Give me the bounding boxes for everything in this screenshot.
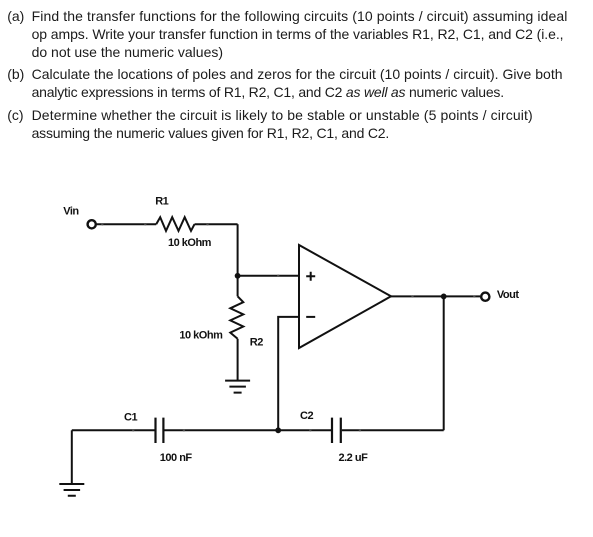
pin mark C1 pin 2 <box>183 429 185 431</box>
svg-text:10 kOhm: 10 kOhm <box>179 329 223 341</box>
pin mark C2 pin 2 <box>359 429 361 431</box>
junction node A <box>235 273 241 279</box>
pin mark R1 pin 1 <box>144 223 146 225</box>
wire ground riser to C1 <box>72 429 155 431</box>
pin mark Vin wire <box>101 223 103 225</box>
junction node Vout <box>441 294 447 300</box>
resistor R2 <box>230 296 243 339</box>
wire C2 to Vout branch <box>342 429 444 431</box>
svg-text:R1: R1 <box>155 196 168 208</box>
resistor R1 <box>156 217 194 231</box>
op-amp U1 <box>299 245 391 348</box>
svg-text:Vin: Vin <box>63 205 79 217</box>
terminal Vout <box>481 293 489 301</box>
pin mark Vout wire <box>473 295 475 297</box>
capacitor C2 <box>332 418 341 443</box>
svg-text:R2: R2 <box>250 337 263 349</box>
svg-text:2.2 uF: 2.2 uF <box>339 452 369 464</box>
wire R2 to ground <box>237 339 239 380</box>
wire left ground riser <box>71 430 73 484</box>
svg-text:Vout: Vout <box>497 289 519 301</box>
terminal Vin <box>88 220 96 228</box>
wire op-amp output <box>391 295 480 297</box>
wire node A to R2 <box>237 276 239 297</box>
pin mark C2 pin 1 <box>309 429 311 431</box>
svg-text:C1: C1 <box>124 412 137 424</box>
wire node A to op-amp + input <box>238 275 299 277</box>
svg-text:100 nF: 100 nF <box>160 452 193 464</box>
wire Vin to R1 <box>96 223 156 225</box>
wire C1 to node B <box>164 429 278 431</box>
wire R1 to corner <box>195 223 238 225</box>
op-amp - pin marker <box>306 316 315 318</box>
pin mark C1 pin 1 <box>132 429 134 431</box>
ground (C1 leg) <box>59 484 84 496</box>
junction node B <box>275 427 281 433</box>
wire node B to C2 <box>278 429 331 431</box>
op-amp + pin marker <box>306 272 315 281</box>
pin mark op-amp + input wire <box>277 275 279 277</box>
wire corner down to node A <box>237 224 239 276</box>
pin mark R1 pin 2 <box>206 223 208 225</box>
wire Vout down to C2 <box>443 296 445 430</box>
wire op-amp - input down to node B <box>278 317 299 430</box>
svg-text:10 kOhm: 10 kOhm <box>168 237 212 249</box>
ground (R2) <box>225 381 250 393</box>
capacitor C1 <box>156 418 164 443</box>
svg-text:C2: C2 <box>300 410 313 422</box>
pin mark op-amp output wire <box>411 295 413 297</box>
